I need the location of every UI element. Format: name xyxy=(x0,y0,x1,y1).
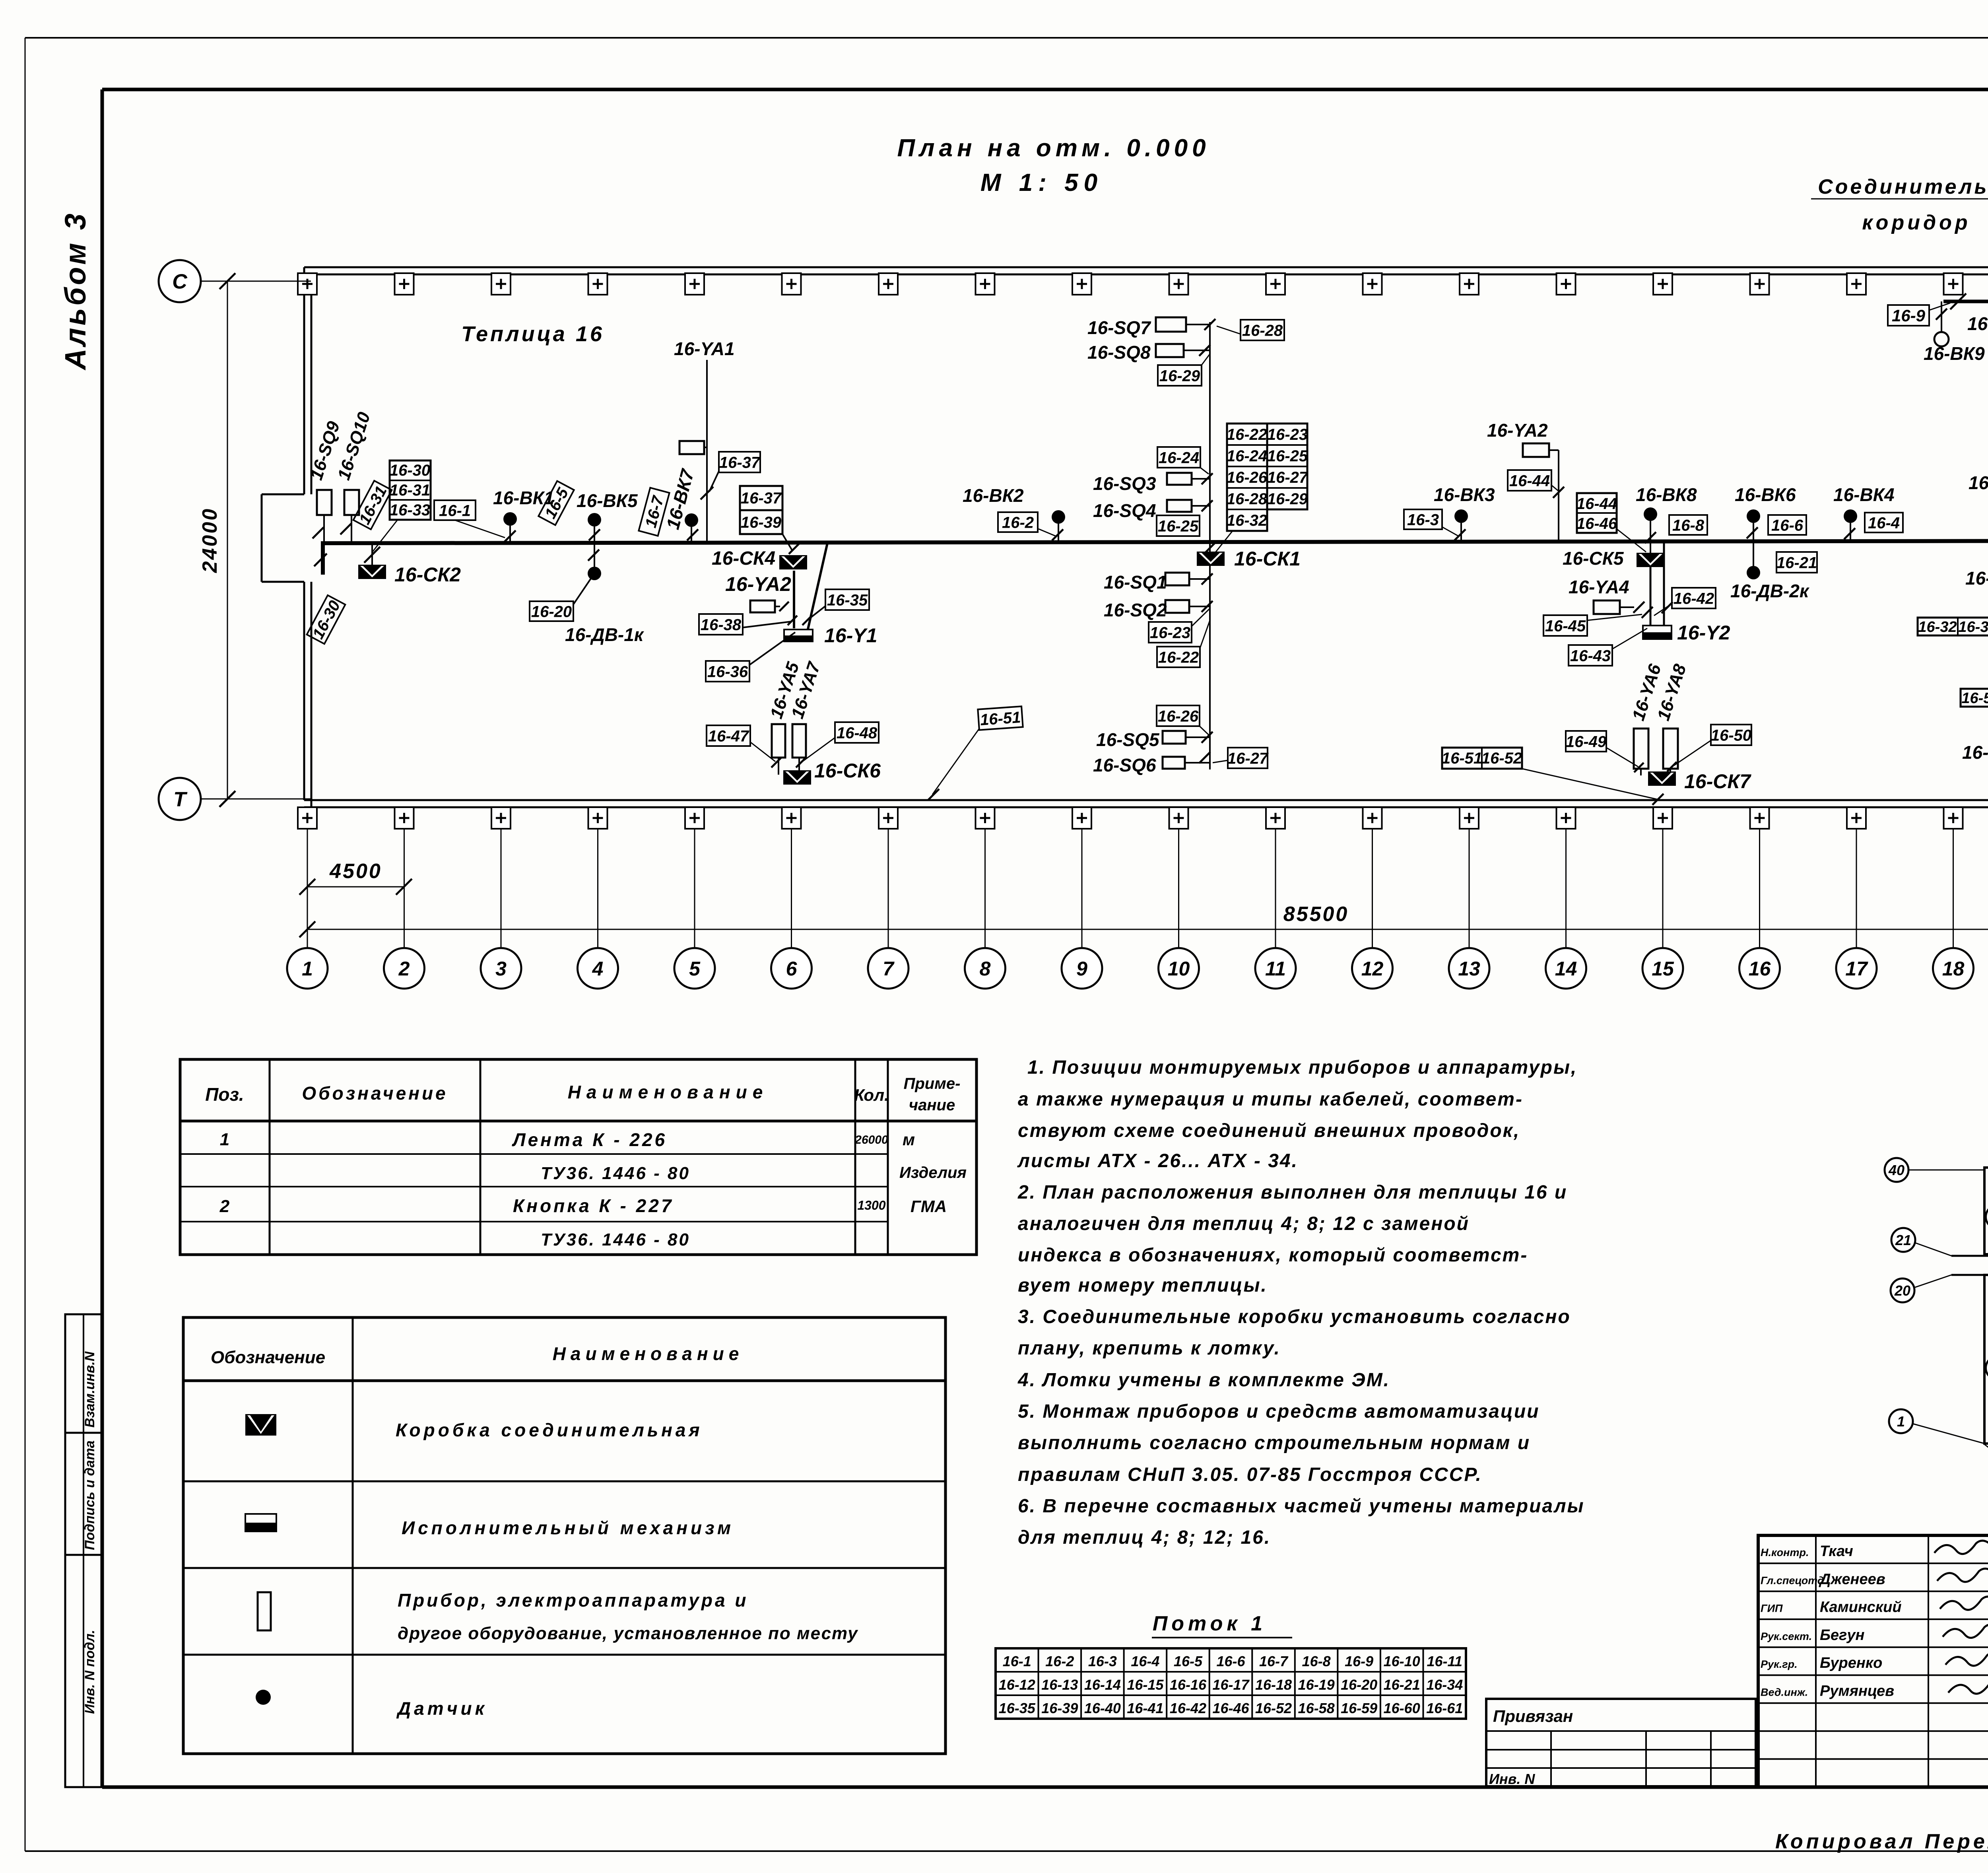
svg-text:18: 18 xyxy=(1942,958,1965,980)
svg-text:16-23: 16-23 xyxy=(1267,426,1308,443)
svg-text:16-YA4: 16-YA4 xyxy=(1569,577,1629,597)
svg-text:16-45: 16-45 xyxy=(1545,617,1586,635)
schematic mark 1 xyxy=(1889,1409,1913,1433)
svg-text:16-29: 16-29 xyxy=(1267,490,1308,508)
svg-text:16-9: 16-9 xyxy=(1892,306,1926,325)
svg-text:16-48: 16-48 xyxy=(837,724,878,742)
svg-text:14: 14 xyxy=(1555,958,1577,980)
svg-text:16-37: 16-37 xyxy=(741,490,782,507)
svg-text:16-28: 16-28 xyxy=(1227,490,1268,508)
svg-text:16-4: 16-4 xyxy=(1868,514,1900,532)
svg-text:16-2: 16-2 xyxy=(1002,514,1034,531)
svg-text:16-51: 16-51 xyxy=(1442,750,1482,767)
svg-text:16-24: 16-24 xyxy=(1159,449,1199,466)
svg-text:16-59: 16-59 xyxy=(1341,1700,1377,1716)
svg-text:выполнить согласно строите: выполнить согласно строительным нормам и xyxy=(1018,1432,1530,1453)
svg-text:16-44: 16-44 xyxy=(1509,472,1550,490)
svg-text:16-YA1: 16-YA1 xyxy=(674,338,735,359)
svg-text:Обозначение: Обозначение xyxy=(302,1083,448,1104)
stamp column Инв.N подл xyxy=(65,1555,101,1787)
svg-text:7: 7 xyxy=(883,958,895,980)
cable labels 16-32 16-33 16-34 xyxy=(1918,618,1988,635)
svg-text:16-47: 16-47 xyxy=(708,727,749,745)
svg-text:Коробка соединительная: Коробка соединительная xyxy=(396,1420,703,1440)
svg-text:16-СК4: 16-СК4 xyxy=(712,548,775,569)
svg-text:16-23: 16-23 xyxy=(1150,624,1190,641)
svg-text:16-20: 16-20 xyxy=(1341,1677,1377,1693)
svg-text:Вед.инж.: Вед.инж. xyxy=(1761,1686,1808,1698)
cable label 16-51 left xyxy=(978,706,1023,730)
svg-text:16-17: 16-17 xyxy=(1212,1677,1250,1693)
cable labels 16-51 16-52 xyxy=(1442,748,1522,769)
svg-text:16-16: 16-16 xyxy=(1170,1677,1207,1693)
cable label 16-36 xyxy=(706,661,749,682)
cable label 16-23 single xyxy=(1149,622,1192,643)
svg-text:16-42: 16-42 xyxy=(1673,590,1714,607)
svg-text:16-SQ2: 16-SQ2 xyxy=(1104,600,1167,620)
sensor 16-DV-1k xyxy=(594,543,595,567)
svg-text:16-СК1: 16-СК1 xyxy=(1234,548,1301,570)
svg-text:Рук.гр.: Рук.гр. xyxy=(1761,1658,1798,1670)
trunk cable line xyxy=(323,541,1988,800)
schematic top bars xyxy=(1984,1168,1988,1254)
svg-text:20: 20 xyxy=(1894,1282,1910,1299)
svg-text:16-Р2: 16-Р2 xyxy=(1969,472,1988,493)
svg-text:16-37: 16-37 xyxy=(719,454,761,471)
svg-text:ТУ36. 1446 - 80: ТУ36. 1446 - 80 xyxy=(541,1164,690,1183)
svg-text:С: С xyxy=(172,270,188,293)
svg-text:16-Р3: 16-Р3 xyxy=(1962,742,1988,763)
stamp column Взам.инв.N xyxy=(65,1314,101,1433)
svg-text:16-YA2: 16-YA2 xyxy=(725,573,791,595)
svg-text:ГМА: ГМА xyxy=(911,1197,947,1216)
svg-text:ГИП: ГИП xyxy=(1761,1603,1783,1615)
cable label 16-30 rotated low xyxy=(307,595,346,644)
svg-text:4: 4 xyxy=(592,958,604,980)
svg-text:Приме-: Приме- xyxy=(904,1075,961,1092)
svg-text:16-SQ1: 16-SQ1 xyxy=(1104,572,1167,593)
svg-text:Подпись и дата: Подпись и дата xyxy=(82,1440,97,1550)
device YA8 rect xyxy=(1663,729,1678,769)
svg-text:16-25: 16-25 xyxy=(1158,517,1199,535)
svg-text:2: 2 xyxy=(398,958,410,980)
svg-text:другое оборудование, установле: другое оборудование, установленное по ме… xyxy=(398,1624,858,1643)
cable label 16-8 xyxy=(1669,515,1707,535)
column grid stubs xyxy=(307,829,308,948)
svg-text:16-58: 16-58 xyxy=(1298,1700,1335,1716)
schematic corridor band xyxy=(1951,1255,1988,1257)
svg-text:16-8: 16-8 xyxy=(1302,1653,1331,1669)
device 16-SQ10 xyxy=(344,490,359,515)
stamp column Подпись и дата xyxy=(65,1433,101,1555)
svg-text:16-21: 16-21 xyxy=(1776,554,1817,571)
cable label 16-1 xyxy=(434,500,476,520)
svg-text:Кол.: Кол. xyxy=(854,1086,889,1104)
svg-text:16-22: 16-22 xyxy=(1227,426,1267,443)
svg-text:16-ДВ-1к: 16-ДВ-1к xyxy=(565,624,645,645)
sheet outer thin border xyxy=(25,37,1988,39)
svg-text:Лента К - 226: Лента К - 226 xyxy=(512,1129,667,1150)
cable label 16-49 xyxy=(1566,731,1607,752)
svg-text:16-1: 16-1 xyxy=(439,502,471,519)
cable stack 16-22..16-32 xyxy=(1227,424,1267,531)
svg-text:16-58: 16-58 xyxy=(1961,690,1988,707)
cable label 16-25 single xyxy=(1157,515,1200,536)
svg-text:Кнопка К - 227: Кнопка К - 227 xyxy=(513,1195,674,1216)
cable label 16-27 xyxy=(1227,748,1269,768)
cable label 16-9 xyxy=(1888,305,1929,326)
svg-text:17: 17 xyxy=(1845,958,1868,980)
svg-text:16-41: 16-41 xyxy=(1127,1700,1163,1716)
svg-text:13: 13 xyxy=(1458,958,1480,980)
svg-text:16-6: 16-6 xyxy=(1771,517,1804,534)
cable label 16-37 single xyxy=(719,452,761,472)
svg-text:16-4: 16-4 xyxy=(1131,1653,1159,1669)
legend symbol device xyxy=(258,1592,271,1630)
svg-text:3: 3 xyxy=(495,958,507,980)
svg-text:ствуют схеме соединений в: ствуют схеме соединений внешних проводок… xyxy=(1018,1120,1520,1141)
cable label 16-45 xyxy=(1543,615,1587,636)
svg-text:Бегун: Бегун xyxy=(1820,1627,1864,1644)
svg-text:16-ВК5: 16-ВК5 xyxy=(577,490,638,511)
svg-text:16-50: 16-50 xyxy=(1711,727,1751,744)
stamp column divider xyxy=(83,1314,84,1787)
svg-text:16-27: 16-27 xyxy=(1227,750,1269,767)
svg-text:16-3: 16-3 xyxy=(1088,1653,1117,1669)
svg-text:16-ВК3: 16-ВК3 xyxy=(1434,484,1495,505)
dim 24000 xyxy=(227,281,228,799)
svg-text:Альбом 3: Альбом 3 xyxy=(59,211,92,371)
cable label 16-5 rotated xyxy=(538,481,574,525)
svg-text:16-Р4: 16-Р4 xyxy=(1967,313,1988,334)
svg-text:а также нумерация и типы: а также нумерация и типы кабелей, соотве… xyxy=(1018,1089,1523,1110)
svg-text:16-20: 16-20 xyxy=(531,603,572,620)
svg-text:16-5: 16-5 xyxy=(1174,1653,1203,1669)
legend symbol junction box xyxy=(245,1414,276,1436)
cable label 16-20 xyxy=(530,601,573,621)
svg-text:16-7: 16-7 xyxy=(1259,1653,1289,1669)
svg-text:Ткач: Ткач xyxy=(1820,1543,1853,1560)
schematic row numbers xyxy=(1986,1205,1988,1229)
cable label 16-29 xyxy=(1158,365,1202,386)
svg-text:16-43: 16-43 xyxy=(1570,647,1611,664)
svg-text:16-12: 16-12 xyxy=(999,1677,1035,1693)
svg-text:плану, крепить к лотку.: плану, крепить к лотку. xyxy=(1018,1338,1281,1359)
bottom wall double line xyxy=(304,799,1988,801)
cable label 16-43 xyxy=(1569,645,1612,666)
svg-text:16-27: 16-27 xyxy=(1267,469,1309,486)
svg-text:16: 16 xyxy=(1749,958,1771,980)
svg-text:16-ВК9: 16-ВК9 xyxy=(1924,343,1985,364)
svg-text:5: 5 xyxy=(689,958,701,980)
svg-text:16-6: 16-6 xyxy=(1216,1653,1245,1669)
cable label 16-31 rotated xyxy=(353,481,392,529)
junction box 16-CK2 xyxy=(358,565,386,579)
device YA7 rect xyxy=(792,724,806,758)
cable labels 16-30 16-31 16-33 xyxy=(390,460,431,520)
svg-text:16-52: 16-52 xyxy=(1255,1700,1292,1716)
svg-text:16-SQ8: 16-SQ8 xyxy=(1087,342,1151,363)
svg-text:Взам.инв.N: Взам.инв.N xyxy=(82,1351,97,1428)
svg-text:16-21: 16-21 xyxy=(1384,1677,1420,1693)
cable label 16-50 xyxy=(1711,725,1751,745)
svg-text:Каминский: Каминский xyxy=(1820,1599,1902,1616)
svg-text:16-YA2: 16-YA2 xyxy=(1487,420,1548,441)
svg-text:16-39: 16-39 xyxy=(741,514,782,531)
schematic mark 40 xyxy=(1885,1158,1908,1182)
svg-text:М 1: 50: М 1: 50 xyxy=(980,169,1103,196)
svg-text:10: 10 xyxy=(1168,958,1190,980)
svg-text:Теплица 16: Теплица 16 xyxy=(461,322,604,346)
svg-text:21: 21 xyxy=(1895,1232,1911,1248)
dim 85500 xyxy=(307,929,1988,930)
svg-text:Поз.: Поз. xyxy=(205,1084,244,1105)
svg-text:16-Р1: 16-Р1 xyxy=(1965,568,1988,589)
svg-text:м: м xyxy=(903,1130,915,1149)
svg-text:16-9: 16-9 xyxy=(1345,1653,1373,1669)
svg-text:16-26: 16-26 xyxy=(1158,707,1199,725)
svg-text:Гл.спецотд: Гл.спецотд xyxy=(1761,1574,1824,1586)
svg-text:Наименование: Наименование xyxy=(568,1082,769,1102)
device YA5 rect xyxy=(772,724,785,758)
svg-text:85500: 85500 xyxy=(1283,903,1349,926)
titleblock outer xyxy=(1758,1535,1988,1787)
sheet thick frame xyxy=(102,88,1988,91)
svg-text:1: 1 xyxy=(1897,1413,1905,1430)
svg-text:16-8: 16-8 xyxy=(1672,517,1705,534)
svg-text:Рук.сект.: Рук.сект. xyxy=(1761,1630,1812,1642)
svg-text:1: 1 xyxy=(220,1130,229,1149)
valve 16-Y2 assembly xyxy=(1650,567,1652,626)
svg-text:16-52: 16-52 xyxy=(1481,750,1522,767)
svg-text:16-42: 16-42 xyxy=(1170,1700,1206,1716)
svg-text:16-32: 16-32 xyxy=(1918,619,1957,635)
column marks top wall xyxy=(298,273,317,295)
svg-text:16-СК6: 16-СК6 xyxy=(814,760,881,782)
svg-text:16-18: 16-18 xyxy=(1255,1677,1292,1693)
cable labels 16-58..16-61 xyxy=(1961,689,1988,707)
svg-text:16-35: 16-35 xyxy=(999,1700,1036,1716)
svg-text:коридор: коридор xyxy=(1862,211,1971,234)
svg-text:16-25: 16-25 xyxy=(1267,447,1308,465)
svg-text:16-SQ3: 16-SQ3 xyxy=(1093,473,1156,494)
svg-text:11: 11 xyxy=(1265,958,1286,980)
junction box 16-CK7 xyxy=(1648,771,1676,786)
cable labels 16-37 16-39 xyxy=(740,486,782,534)
svg-text:16-ВК2: 16-ВК2 xyxy=(963,485,1024,506)
top wall double line xyxy=(304,266,1988,268)
svg-text:6. В перечне составных ча: 6. В перечне составных частей учтены мат… xyxy=(1018,1496,1585,1517)
svg-text:16-35: 16-35 xyxy=(827,591,868,609)
left wall xyxy=(303,267,305,494)
svg-text:Изделия: Изделия xyxy=(899,1164,967,1181)
svg-text:Н.контр.: Н.контр. xyxy=(1761,1547,1809,1558)
svg-text:3. Соединительные коробки: 3. Соединительные коробки установить сог… xyxy=(1018,1306,1571,1327)
titleblock signature grid xyxy=(1758,1562,1988,1564)
svg-text:16-49: 16-49 xyxy=(1566,733,1607,750)
legend table grid xyxy=(183,1317,945,1754)
device YA6 rect xyxy=(1634,729,1648,769)
svg-text:Инв. N подл.: Инв. N подл. xyxy=(82,1630,97,1714)
cable label 16-7 rotated xyxy=(639,488,669,536)
row mark C xyxy=(159,260,201,302)
svg-text:15: 15 xyxy=(1652,958,1674,980)
svg-text:Копировал Перелыгина: Копировал Перелыгина xyxy=(1775,1830,1988,1853)
svg-text:16-SQ4: 16-SQ4 xyxy=(1093,500,1156,521)
svg-text:12: 12 xyxy=(1361,958,1384,980)
legend symbol actuator xyxy=(245,1514,276,1531)
svg-text:16-Y1: 16-Y1 xyxy=(824,624,877,647)
svg-text:16-СК7: 16-СК7 xyxy=(1684,770,1751,793)
svg-text:16-24: 16-24 xyxy=(1227,447,1267,465)
left wall recess xyxy=(262,494,304,495)
svg-text:16-61: 16-61 xyxy=(1426,1700,1463,1716)
svg-text:16-19: 16-19 xyxy=(1298,1677,1335,1693)
schematic mark 21 xyxy=(1891,1228,1915,1252)
schematic bottom bars xyxy=(1984,1275,1988,1444)
Potok 1 cable table xyxy=(996,1648,1466,1719)
svg-text:9: 9 xyxy=(1076,958,1087,980)
svg-text:16-30: 16-30 xyxy=(390,462,430,479)
svg-text:чание: чание xyxy=(909,1096,955,1114)
svg-text:16-3: 16-3 xyxy=(1407,511,1439,528)
svg-text:4500: 4500 xyxy=(329,860,382,883)
svg-text:Наименование: Наименование xyxy=(553,1343,744,1364)
cable label 16-28 xyxy=(1241,320,1284,340)
svg-text:Поток 1: Поток 1 xyxy=(1153,1612,1266,1635)
svg-text:24000: 24000 xyxy=(198,507,221,573)
svg-text:16-46: 16-46 xyxy=(1576,515,1617,532)
svg-text:16-28: 16-28 xyxy=(1242,322,1283,339)
svg-text:Дженеев: Дженеев xyxy=(1819,1571,1885,1587)
privyazan box xyxy=(1486,1699,1756,1786)
svg-text:16-ВК4: 16-ВК4 xyxy=(1833,484,1895,505)
junction box 16-CK6 xyxy=(783,770,811,785)
dim 4500 left xyxy=(307,886,404,888)
svg-text:листы АТХ - 26... АТХ - 34.: листы АТХ - 26... АТХ - 34. xyxy=(1017,1150,1298,1172)
svg-text:16-39: 16-39 xyxy=(1041,1700,1078,1716)
actuator near CK4 xyxy=(750,600,775,612)
column marks bottom wall xyxy=(298,807,317,829)
svg-text:Исполнительный механизм: Исполнительный механизм xyxy=(402,1517,734,1538)
wire trunk SQ7-SQ6 xyxy=(1209,322,1211,769)
svg-text:16-2: 16-2 xyxy=(1045,1653,1074,1669)
svg-text:16-13: 16-13 xyxy=(1041,1677,1078,1693)
svg-text:Соединительный: Соединительный xyxy=(1818,175,1988,198)
svg-text:5. Монтаж приборов и сре: 5. Монтаж приборов и средств автоматизац… xyxy=(1018,1401,1540,1422)
cable label 16-26 single xyxy=(1157,705,1200,726)
column circles 1-21 xyxy=(287,948,328,989)
svg-text:16-1: 16-1 xyxy=(1003,1653,1031,1669)
svg-text:1. Позиции монтируемых пр: 1. Позиции монтируемых приборов и аппара… xyxy=(1027,1057,1577,1078)
svg-text:План на отм. 0.000: План на отм. 0.000 xyxy=(897,134,1210,162)
svg-text:16-40: 16-40 xyxy=(1084,1700,1121,1716)
svg-text:Датчик: Датчик xyxy=(396,1698,487,1719)
cable label 16-24 single xyxy=(1157,447,1200,468)
svg-text:индекса в обозначениях, кот: индекса в обозначениях, который соответс… xyxy=(1018,1245,1528,1266)
parts table grid xyxy=(180,1059,977,1255)
svg-text:ТУ36. 1446 - 80: ТУ36. 1446 - 80 xyxy=(541,1230,690,1249)
row mark T xyxy=(159,778,201,820)
svg-text:16-22: 16-22 xyxy=(1158,649,1199,666)
svg-text:16-15: 16-15 xyxy=(1127,1677,1164,1693)
svg-text:Инв. N: Инв. N xyxy=(1489,1771,1535,1787)
svg-text:Обозначение: Обозначение xyxy=(211,1348,325,1367)
cable label 16-47 xyxy=(707,725,750,746)
legend symbol sensor xyxy=(256,1690,271,1705)
svg-text:16-34: 16-34 xyxy=(1426,1677,1463,1693)
svg-text:16-31: 16-31 xyxy=(390,482,430,499)
svg-text:4. Лотки учтены в компле: 4. Лотки учтены в комплекте ЭМ. xyxy=(1017,1370,1390,1391)
schematic mark 20 xyxy=(1891,1278,1914,1302)
svg-text:16-26: 16-26 xyxy=(1227,469,1268,486)
svg-text:16-SQ5: 16-SQ5 xyxy=(1096,729,1160,750)
svg-text:16-СК5: 16-СК5 xyxy=(1563,548,1624,569)
svg-text:16-33: 16-33 xyxy=(390,501,430,519)
svg-text:вует номеру теплицы.: вует номеру теплицы. xyxy=(1018,1275,1268,1296)
svg-text:1300: 1300 xyxy=(857,1198,885,1212)
svg-text:правилам СНиП 3.05. 07-85: правилам СНиП 3.05. 07-85 Госстроя СССР. xyxy=(1018,1464,1482,1485)
actuator near CK5 xyxy=(1594,600,1620,614)
svg-text:16-33: 16-33 xyxy=(1958,619,1988,635)
svg-text:16-44: 16-44 xyxy=(1576,495,1617,513)
svg-text:16-ВК6: 16-ВК6 xyxy=(1735,484,1796,505)
svg-text:16-38: 16-38 xyxy=(701,616,742,633)
svg-text:Прибор, электроаппаратура и: Прибор, электроаппаратура и xyxy=(398,1590,748,1611)
svg-text:26000: 26000 xyxy=(854,1133,888,1146)
svg-text:16-СК2: 16-СК2 xyxy=(394,563,461,586)
svg-text:2: 2 xyxy=(219,1197,230,1216)
svg-text:для теплиц 4; 8; 12; 16.: для теплиц 4; 8; 12; 16. xyxy=(1018,1527,1271,1548)
svg-text:Румянцев: Румянцев xyxy=(1820,1683,1894,1700)
svg-text:16-32: 16-32 xyxy=(1227,512,1267,529)
cable label 16-38 xyxy=(699,614,743,635)
svg-text:6: 6 xyxy=(786,958,798,980)
svg-text:16-SQ6: 16-SQ6 xyxy=(1093,755,1156,775)
svg-text:16-36: 16-36 xyxy=(707,663,748,680)
junction box 16-CK1 xyxy=(1197,552,1225,566)
cable label 16-42 xyxy=(1672,588,1716,608)
svg-text:Привязан: Привязан xyxy=(1493,1707,1573,1725)
svg-text:16-60: 16-60 xyxy=(1384,1700,1420,1716)
svg-text:16-11: 16-11 xyxy=(1427,1653,1462,1669)
svg-text:16-SQ7: 16-SQ7 xyxy=(1087,317,1151,338)
svg-text:16-ДВ-2к: 16-ДВ-2к xyxy=(1730,581,1810,601)
cable label 16-35 xyxy=(825,589,869,610)
cable label 16-48 xyxy=(835,722,879,743)
sensor 16-BK9 xyxy=(1934,332,1949,346)
cable label 16-22 single xyxy=(1157,647,1200,667)
svg-text:аналогичен для теплиц 4; 8;: аналогичен для теплиц 4; 8; 12 с заменой xyxy=(1018,1213,1470,1234)
svg-text:16-14: 16-14 xyxy=(1084,1677,1121,1693)
svg-text:Т: Т xyxy=(173,788,188,811)
svg-text:1: 1 xyxy=(302,958,313,980)
svg-text:2. План расположения выполне: 2. План расположения выполнен для теплиц… xyxy=(1017,1182,1567,1203)
corridor feed cable xyxy=(1943,300,1988,303)
svg-text:16-ВК8: 16-ВК8 xyxy=(1636,484,1697,505)
svg-text:16-46: 16-46 xyxy=(1212,1700,1249,1716)
svg-text:8: 8 xyxy=(980,958,991,980)
svg-text:16-29: 16-29 xyxy=(1159,367,1200,385)
cable label 16-44 top xyxy=(1508,470,1551,491)
device 16-SQ9 xyxy=(317,490,332,515)
svg-text:40: 40 xyxy=(1888,1162,1905,1178)
sensor 16-DV-2k xyxy=(1747,566,1760,579)
svg-text:16-Y2: 16-Y2 xyxy=(1677,622,1730,644)
cable labels 16-44 16-46 xyxy=(1577,493,1617,533)
valve 16-Y1 xyxy=(784,630,813,641)
svg-text:Буренко: Буренко xyxy=(1820,1655,1882,1671)
